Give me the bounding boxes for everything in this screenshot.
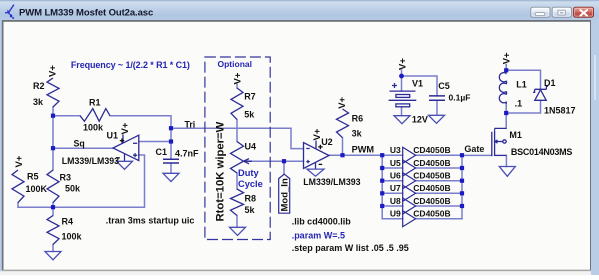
svg-text:3k: 3k — [352, 129, 363, 139]
svg-text:Tri: Tri — [185, 120, 196, 130]
svg-text:.lib cd4000.lib: .lib cd4000.lib — [292, 217, 352, 227]
svg-text:Sq: Sq — [74, 139, 85, 149]
svg-text:U9: U9 — [390, 209, 401, 219]
svg-text:5k: 5k — [245, 205, 256, 215]
svg-text:CD4050B: CD4050B — [413, 196, 450, 206]
svg-text:R1: R1 — [89, 98, 101, 108]
svg-text:4.7nF: 4.7nF — [175, 149, 199, 159]
svg-text:CD4050B: CD4050B — [413, 145, 450, 155]
svg-text:U8: U8 — [390, 196, 401, 206]
svg-text:U5: U5 — [390, 158, 401, 168]
svg-text:D1: D1 — [544, 78, 556, 88]
svg-text:.1: .1 — [515, 99, 523, 109]
svg-text:Cycle: Cycle — [238, 179, 263, 189]
svg-text:M1: M1 — [509, 130, 522, 140]
svg-text:BSC014N03MS: BSC014N03MS — [511, 147, 573, 157]
svg-text:CD4050B: CD4050B — [413, 209, 450, 219]
svg-text:PWM: PWM — [352, 145, 375, 155]
svg-text:Mod_In: Mod_In — [280, 178, 291, 211]
svg-text:U2: U2 — [321, 137, 333, 147]
svg-text:Duty: Duty — [238, 168, 259, 178]
svg-text:V+: V+ — [397, 58, 408, 70]
svg-text:V+: V+ — [14, 155, 25, 167]
svg-text:V+: V+ — [502, 52, 513, 64]
svg-text:U3: U3 — [390, 145, 401, 155]
svg-text:CD4050B: CD4050B — [413, 158, 450, 168]
svg-text:R2: R2 — [33, 81, 45, 91]
svg-text:12V: 12V — [412, 115, 428, 125]
svg-text:PWM LM339 Mosfet Out2a.asc: PWM LM339 Mosfet Out2a.asc — [19, 8, 153, 19]
svg-text:U6: U6 — [390, 171, 401, 181]
svg-text:R6: R6 — [352, 114, 364, 124]
svg-text:R4: R4 — [62, 217, 74, 227]
svg-text:.tran 3ms startup uic: .tran 3ms startup uic — [106, 215, 195, 225]
svg-text:.param W=.5: .param W=.5 — [292, 231, 345, 241]
svg-text:U4: U4 — [245, 142, 257, 152]
svg-text:C1: C1 — [156, 147, 168, 157]
svg-text:3k: 3k — [33, 97, 44, 107]
svg-text:V+: V+ — [337, 96, 348, 108]
svg-text:100k: 100k — [83, 123, 104, 133]
svg-text:100K: 100K — [26, 184, 48, 194]
svg-text:.step param W list .05 .5 .95: .step param W list .05 .5 .95 — [292, 243, 409, 253]
svg-text:C5: C5 — [438, 81, 450, 91]
svg-text:1N5817: 1N5817 — [544, 106, 576, 116]
svg-text:CD4050B: CD4050B — [413, 171, 450, 181]
svg-text:R8: R8 — [245, 194, 257, 204]
svg-text:LM339/LM393: LM339/LM393 — [62, 156, 119, 166]
svg-text:100k: 100k — [62, 232, 83, 242]
svg-text:V+: V+ — [120, 122, 131, 134]
svg-text:0.1µF: 0.1µF — [449, 93, 471, 103]
svg-text:Optional: Optional — [218, 59, 252, 69]
svg-text:LM339/LM393: LM339/LM393 — [303, 177, 360, 187]
svg-text:Gate: Gate — [464, 144, 484, 154]
svg-text:R3: R3 — [60, 173, 72, 183]
svg-text:U1: U1 — [106, 131, 118, 141]
svg-text:5k: 5k — [244, 110, 255, 120]
svg-text:50k: 50k — [65, 184, 81, 194]
svg-text:U7: U7 — [390, 183, 401, 193]
svg-text:V1: V1 — [412, 79, 423, 89]
svg-text:L1: L1 — [516, 80, 527, 90]
svg-text:Frequency ~ 1/(2.2 * R1 * C1): Frequency ~ 1/(2.2 * R1 * C1) — [71, 60, 190, 70]
svg-text:V+: V+ — [48, 65, 59, 77]
svg-text:V+: V+ — [233, 72, 244, 84]
svg-text:CD4050B: CD4050B — [413, 183, 450, 193]
svg-text:Rtot=10K wiper=W: Rtot=10K wiper=W — [215, 121, 227, 221]
svg-text:R7: R7 — [244, 92, 256, 102]
svg-text:R5: R5 — [27, 172, 39, 182]
